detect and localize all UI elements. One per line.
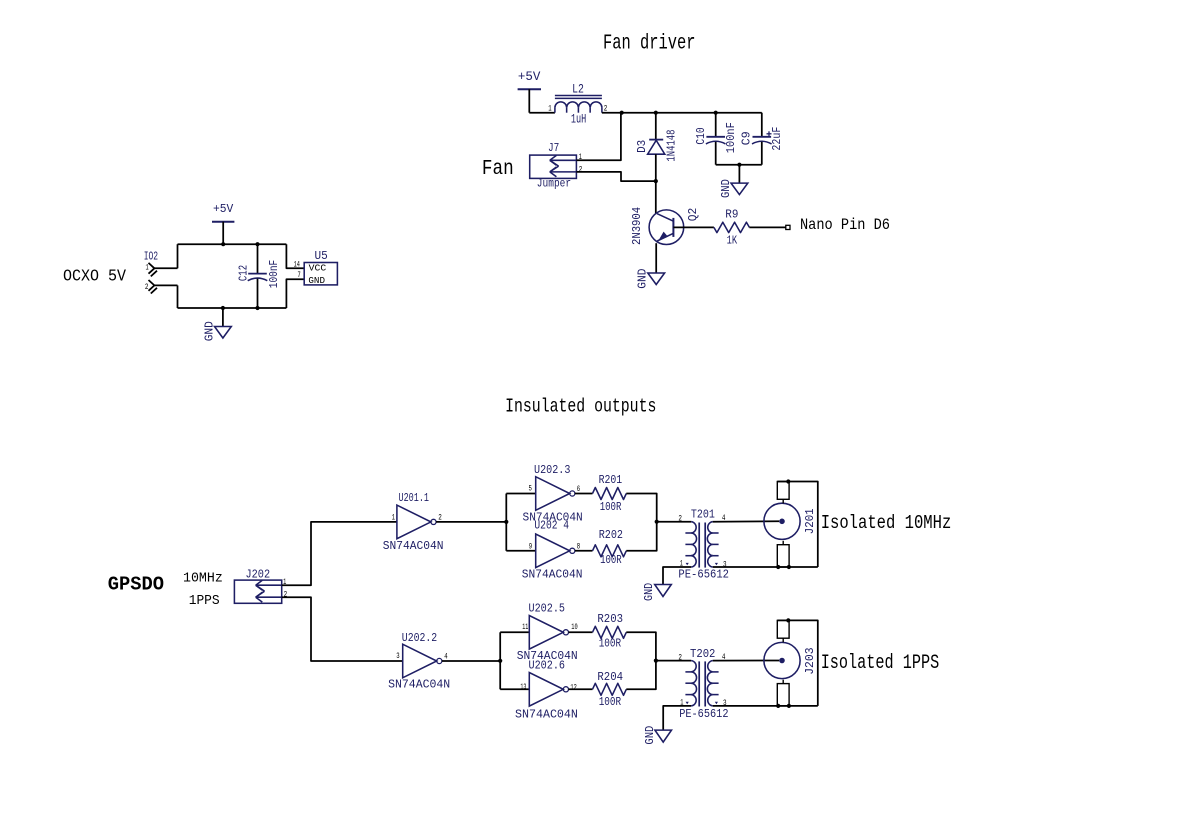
svg-text:1K: 1K <box>727 234 738 248</box>
wire split vertical (10MHz) <box>505 494 507 551</box>
svg-text:9: 9 <box>529 542 533 551</box>
pad Nano D6 <box>786 225 790 229</box>
svg-text:T201: T201 <box>691 507 715 521</box>
label 1PPS <box>189 593 220 609</box>
node junction botrail-C12 <box>255 306 259 310</box>
wire T202 pin4 to BNC <box>713 660 779 662</box>
node junction stem-rail <box>221 242 225 246</box>
label OCXO 5V <box>63 267 127 286</box>
svg-text:7: 7 <box>298 271 301 280</box>
ground (caps) <box>719 179 748 198</box>
svg-text:GND: GND <box>636 269 650 289</box>
label 10MHz <box>183 571 223 587</box>
wire U5 gnd <box>286 279 304 308</box>
svg-text:Isolated 10MHz: Isolated 10MHz <box>821 512 952 534</box>
svg-text:100nF: 100nF <box>267 260 281 288</box>
wire U202.5 out <box>569 631 593 633</box>
connector IO2 pin1 <box>146 263 158 277</box>
svg-text:L2: L2 <box>572 81 584 96</box>
wire J7 pin1 to rail <box>576 113 621 161</box>
inverter U202.5 <box>517 601 578 662</box>
svg-text:R202: R202 <box>599 528 623 542</box>
node junction rail-D3 <box>654 111 658 115</box>
svg-text:C9: C9 <box>740 131 754 145</box>
svg-text:J203: J203 <box>803 647 817 674</box>
svg-text:GND: GND <box>719 179 733 198</box>
svg-text:R201: R201 <box>599 473 623 487</box>
IC U5 <box>294 249 338 286</box>
capacitor C10 100nF <box>694 122 738 153</box>
inverter U202.3 <box>523 463 583 524</box>
svg-text:Isolated 1PPS: Isolated 1PPS <box>821 652 940 675</box>
svg-text:U202.2: U202.2 <box>402 631 437 645</box>
label IO2 <box>144 250 158 264</box>
wire to U202.4 <box>506 550 535 552</box>
inverter U202.6 <box>515 659 578 722</box>
svg-text:D3: D3 <box>635 140 649 153</box>
title: Fan driver <box>603 32 696 55</box>
wire C12 bottom lead <box>257 279 259 308</box>
wire R203 to join <box>626 632 656 660</box>
wire ocxo top rail <box>178 243 287 245</box>
svg-text:Insulated outputs: Insulated outputs <box>505 396 656 418</box>
wire C10 bottom <box>715 142 717 165</box>
label Isolated 1PPS <box>821 652 940 675</box>
wire gnd stem (caps) <box>738 165 740 183</box>
svg-text:J201: J201 <box>803 508 817 534</box>
wire R202 to join <box>626 522 656 551</box>
capacitor C9 22uF polarized <box>740 127 784 151</box>
resistor R9 1K <box>714 207 750 247</box>
wire top rail <box>602 112 762 114</box>
node junction J203 bot1 <box>776 704 780 708</box>
connector IO2 pin2 <box>145 280 157 294</box>
wire to U202.3 <box>506 493 535 495</box>
node junction rail-D3branch <box>620 111 624 115</box>
svg-text:+5V: +5V <box>213 202 234 216</box>
transformer T201 PE-65612 <box>678 507 729 581</box>
BNC J201 <box>764 482 817 568</box>
svg-text:11: 11 <box>522 623 528 632</box>
wire T201 pin1 to gnd <box>663 567 691 585</box>
wire D3 junction to Q2 collector <box>655 181 657 214</box>
label Nano Pin D6 <box>800 216 890 234</box>
node junction J203 bot2 <box>787 704 791 708</box>
wire to U202.6 <box>500 688 529 690</box>
wire T202 pin1 to gnd <box>663 706 691 730</box>
wire ocxo gnd stem <box>222 308 224 327</box>
ground (T201) <box>642 583 671 601</box>
wire R9 to pad <box>749 226 785 228</box>
wire rail to D3 <box>655 113 657 140</box>
svg-text:C10: C10 <box>694 127 708 144</box>
svg-text:U202.3: U202.3 <box>534 463 570 477</box>
wire rail corner to C9 <box>761 113 763 137</box>
svg-text:100nF: 100nF <box>724 122 738 153</box>
connector J202 <box>234 567 287 603</box>
node junction J201 top <box>786 479 790 483</box>
wire R204 to join <box>626 661 656 690</box>
transistor Q2 2N3904 <box>630 207 700 245</box>
svg-text:Fan driver: Fan driver <box>603 32 696 55</box>
node junction split 10MHz <box>504 520 508 524</box>
svg-text:14: 14 <box>294 261 300 270</box>
svg-text:U202.6: U202.6 <box>529 659 566 673</box>
svg-text:100R: 100R <box>599 637 621 651</box>
svg-text:1N4148: 1N4148 <box>665 130 679 162</box>
wire U202.3 out <box>575 493 593 495</box>
svg-text:5: 5 <box>529 485 533 494</box>
node junction J201 bot2 <box>787 565 791 569</box>
svg-text:R203: R203 <box>597 612 623 626</box>
node junction R-join 1PPS <box>654 659 658 663</box>
node junction D3-Q2 <box>654 179 658 183</box>
transformer T202 PE-65612 <box>678 647 728 721</box>
wire D3 anode down <box>655 154 657 181</box>
svg-text:2: 2 <box>678 654 682 663</box>
node junction J203 top <box>786 618 790 622</box>
svg-text:1: 1 <box>548 105 552 114</box>
svg-text:10: 10 <box>571 623 578 632</box>
svg-text:Q2: Q2 <box>686 208 700 222</box>
wire C9 bottom <box>761 142 763 165</box>
wire U201.1 out <box>436 521 506 523</box>
svg-text:J202: J202 <box>246 567 271 581</box>
inverter U201.1 <box>383 491 444 553</box>
node junction rail-C12 <box>255 242 259 246</box>
wire to T202 pin2 <box>656 660 691 662</box>
svg-text:OCXO 5V: OCXO 5V <box>63 267 127 286</box>
svg-text:2N3904: 2N3904 <box>630 207 644 245</box>
svg-text:U5: U5 <box>315 249 328 263</box>
wire T201 pin3 <box>713 566 818 568</box>
wire split vertical (1PPS) <box>499 632 501 689</box>
node junction botrail-gnd <box>221 306 225 310</box>
svg-text:SN74AC04N: SN74AC04N <box>522 568 583 582</box>
resistor R202 100R <box>593 528 627 567</box>
wire R201 to join <box>626 494 656 522</box>
svg-text:SN74AC04N: SN74AC04N <box>388 678 450 692</box>
wire Q2 base to R9 <box>673 226 714 228</box>
svg-text:1PPS: 1PPS <box>189 593 220 609</box>
svg-text:+5V: +5V <box>518 69 541 84</box>
label GPSDO <box>108 574 164 596</box>
svg-text:1: 1 <box>146 264 149 273</box>
resistor R204 100R <box>593 670 627 709</box>
node junction R-join 10MHz <box>655 520 659 524</box>
svg-text:U202.5: U202.5 <box>529 601 566 615</box>
wire rail to C10 <box>715 113 717 137</box>
wire to T201 pin2 <box>657 521 691 523</box>
svg-text:SN74AC04N: SN74AC04N <box>383 539 444 553</box>
svg-text:3: 3 <box>396 652 400 661</box>
svg-text:R9: R9 <box>725 207 738 221</box>
wire to U202.5 <box>500 631 529 633</box>
wire C12 top lead <box>257 244 259 273</box>
svg-text:100R: 100R <box>600 500 622 514</box>
svg-text:GND: GND <box>308 275 325 286</box>
wire J202 pin1 to U201.1 <box>282 522 397 585</box>
node junction split 1PPS <box>498 659 502 663</box>
svg-text:T202: T202 <box>690 647 715 661</box>
wire +5V stem (ocxo) <box>222 222 224 245</box>
wire T202 pin3 <box>713 705 818 707</box>
svg-text:Nano Pin D6: Nano Pin D6 <box>800 216 890 234</box>
svg-text:GND: GND <box>203 321 217 341</box>
svg-text:PE-65612: PE-65612 <box>679 707 728 721</box>
svg-text:GND: GND <box>643 726 657 745</box>
svg-text:R204: R204 <box>597 670 623 684</box>
label Isolated 10MHz <box>821 512 952 534</box>
svg-text:100R: 100R <box>600 553 622 567</box>
connector J7 <box>530 141 583 191</box>
inverter U202.4 <box>522 519 583 582</box>
power +5V symbol (fan) <box>518 69 541 89</box>
wire BNC J203 bracket <box>777 620 818 706</box>
wire U202.2 out <box>442 660 500 662</box>
wire U202.4 out <box>575 550 593 552</box>
title: Insulated outputs <box>505 396 656 418</box>
svg-text:U201.1: U201.1 <box>399 491 430 505</box>
wire ocxo bottom rail <box>178 307 287 309</box>
BNC J203 <box>764 620 817 705</box>
svg-text:13: 13 <box>520 683 526 692</box>
svg-text:3: 3 <box>723 699 727 708</box>
svg-text:C12: C12 <box>236 265 250 281</box>
svg-text:U202 4: U202 4 <box>534 519 569 533</box>
svg-text:Jumper: Jumper <box>537 177 571 191</box>
wire +5V stem to rail <box>529 89 555 113</box>
svg-text:SN74AC04N: SN74AC04N <box>515 707 578 721</box>
svg-text:3: 3 <box>723 560 727 569</box>
svg-text:PE-65612: PE-65612 <box>678 568 729 582</box>
svg-text:GND: GND <box>642 583 656 601</box>
svg-text:2: 2 <box>579 165 583 174</box>
resistor R201 100R <box>593 473 627 514</box>
diode D3 1N4148 <box>635 130 678 162</box>
svg-text:10MHz: 10MHz <box>183 571 223 587</box>
inverter U202.2 <box>388 631 450 692</box>
svg-text:2: 2 <box>678 515 682 524</box>
wire J7 pin2 to D3 anode <box>576 172 655 181</box>
wire IO2 pin1 <box>154 244 177 268</box>
wire caps bottom rail <box>716 164 762 166</box>
node junction caps-gnd <box>737 163 741 167</box>
svg-text:22uF: 22uF <box>770 127 784 151</box>
wire U202.6 out <box>569 688 593 690</box>
svg-text:2: 2 <box>145 283 149 292</box>
node junction J201 bot1 <box>776 565 780 569</box>
resistor R203 100R <box>593 612 627 651</box>
power +5V symbol (ocxo) <box>212 202 234 222</box>
svg-text:100R: 100R <box>599 695 621 709</box>
wire BNC J201 bracket <box>777 482 818 568</box>
svg-text:VCC: VCC <box>309 262 327 273</box>
wire Q2 emitter <box>655 243 657 273</box>
svg-text:1uH: 1uH <box>571 112 586 127</box>
ground (T202) <box>643 726 672 745</box>
wire J202 pin2 to U202.2 <box>282 597 403 661</box>
wire T201 pin4 to BNC <box>713 520 779 522</box>
ground (Q2) <box>636 269 665 289</box>
wire U5 vcc <box>286 244 304 268</box>
svg-text:GPSDO: GPSDO <box>108 574 164 596</box>
svg-text:6: 6 <box>577 485 581 494</box>
svg-text:1: 1 <box>392 514 395 523</box>
svg-text:IO2: IO2 <box>144 250 158 264</box>
svg-text:12: 12 <box>570 684 577 693</box>
inductor L2 <box>548 81 607 126</box>
svg-text:Fan: Fan <box>482 158 514 181</box>
ground (ocxo) <box>203 321 232 341</box>
capacitor C12 100nF <box>236 260 280 288</box>
wire IO2 pin2 <box>154 285 177 308</box>
label Fan <box>482 158 514 181</box>
node junction rail-C10 <box>714 111 718 115</box>
svg-text:J7: J7 <box>548 141 559 155</box>
svg-text:2: 2 <box>438 513 442 522</box>
